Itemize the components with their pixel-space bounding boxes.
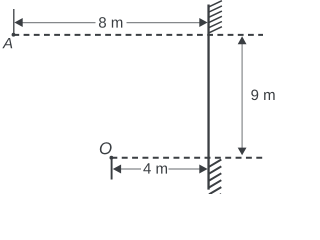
wall hatching bottom xyxy=(209,160,221,202)
arrowhead right of 8 m dimension at wall xyxy=(199,18,207,27)
label 4 m xyxy=(143,163,167,173)
arrowhead down of 9 m dimension xyxy=(238,148,247,156)
arrowhead left of 4 m dimension xyxy=(113,165,121,174)
arrowhead left of 8 m dimension xyxy=(14,18,22,27)
extension tick above point A xyxy=(13,9,15,34)
dimension line 8 m (left segment) xyxy=(20,22,96,24)
point A dot xyxy=(12,33,16,37)
dimension line 4 m (right segment) xyxy=(169,168,201,170)
label 8 m xyxy=(99,17,122,28)
dimension line 8 m (right segment) xyxy=(127,22,203,24)
post line below O xyxy=(111,158,113,180)
arrowhead right of 4 m dimension at wall xyxy=(199,165,207,174)
point O dot xyxy=(110,156,114,160)
wall hatching top xyxy=(209,1,222,33)
label A xyxy=(2,38,12,48)
dimension line 9 m vertical xyxy=(241,40,243,150)
arrowhead up of 9 m dimension xyxy=(238,36,247,44)
dashed line from O to wall and beyond xyxy=(111,157,263,159)
label O xyxy=(100,142,112,154)
dashed line from A to wall and beyond xyxy=(13,34,263,36)
wall line xyxy=(207,5,209,190)
dimension line 4 m (left segment) xyxy=(120,168,142,170)
label 9 m xyxy=(251,90,274,101)
